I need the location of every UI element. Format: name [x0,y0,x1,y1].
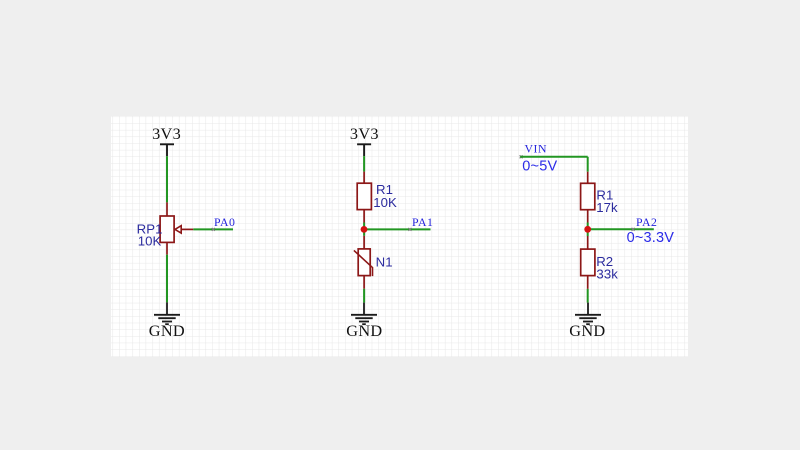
wire wiper to PA0 [193,228,233,230]
resistor R1 body (circuit 2) [357,183,371,209]
svg-text:33k: 33k [596,266,618,281]
thermistor N1 diagonal stroke [354,250,373,276]
wire VIN horizontal [520,156,587,158]
potentiometer RP1 wiper arrow [175,226,181,233]
svg-text:17k: 17k [596,200,618,215]
pin 2 of RP1 (wiper lead) [181,228,193,230]
svg-text:VIN: VIN [525,141,547,155]
svg-text:3V3: 3V3 [350,124,379,143]
net label anchor mark PA1 [408,228,411,231]
net label anchor mark PA0 [212,228,215,231]
pin 1 of R1 (circuit 3, top) [587,172,589,184]
power symbol 3V3 stem (circuit 2) [363,144,365,156]
power symbol 3V3 bar (circuit 2) [357,143,371,145]
thermistor N1 body [358,249,370,276]
schematic canvas [111,116,688,357]
ground symbol (circuit 1) [154,302,180,324]
pin 1 of R2 (top) [587,236,589,249]
pin 1 of RP1 (top) [166,202,168,216]
power symbol 3V3 stem (circuit 1) [166,144,168,156]
ground symbol (circuit 2) [351,303,377,325]
wire RP1 bottom to GND [166,255,168,303]
svg-text:0~3.3V: 0~3.3V [627,230,675,246]
svg-text:GND: GND [569,321,605,340]
wire VIN vertical to R1 [587,157,589,172]
pin 1 of R1 (top) [363,172,365,184]
net label anchor mark VIN [520,155,523,158]
svg-text:10K: 10K [138,234,162,249]
wire R2 bottom to GND [587,289,589,303]
resistor R1 body (circuit 3) [581,183,595,209]
svg-text:PA0: PA0 [214,215,235,229]
wire node to PA2 [588,228,654,230]
potentiometer RP1 body [160,216,174,242]
ground symbol (circuit 3) [575,303,601,325]
pin 1 of N1 (top) [363,236,365,249]
pin 2 of R1 (bottom) [363,210,365,223]
svg-text:PA1: PA1 [412,215,433,229]
power symbol 3V3 bar (circuit 1) [160,143,174,145]
wire 3V3 to R1 top [363,156,365,172]
pin 2 of R2 (bottom) [587,276,589,289]
svg-text:10K: 10K [373,195,397,210]
svg-text:PA2: PA2 [636,215,657,229]
wire node to PA1 [364,228,430,230]
svg-text:GND: GND [346,321,382,340]
junction node (circuit 2) [361,226,368,233]
svg-text:3V3: 3V3 [152,124,181,143]
pin 2 of N1 (bottom) [363,276,365,289]
pin 3 of RP1 (bottom) [166,242,168,254]
pin 2 of R1 (circuit 3, bottom) [587,210,589,223]
wire 3V3 to RP1 top [166,156,168,202]
svg-text:GND: GND [149,321,185,340]
svg-text:0~5V: 0~5V [522,159,557,175]
wire R1 to node (circuit 3) [587,223,589,237]
junction node (circuit 3) [584,226,591,233]
resistor R2 body [581,249,595,276]
net label anchor mark PA2 [632,228,635,231]
wire R1 bottom to node [363,223,365,236]
wire N1 bottom to GND [363,289,365,303]
svg-text:N1: N1 [376,254,393,269]
